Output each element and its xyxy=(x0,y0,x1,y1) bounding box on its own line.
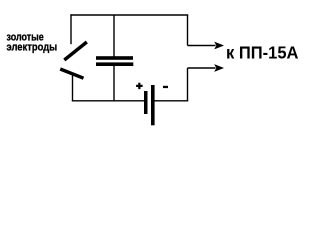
electrode upper (gold electrode, thick diagonal) xyxy=(64,42,87,60)
svg-text:электроды: электроды xyxy=(7,42,58,54)
wire bottom left horizontal xyxy=(72,100,145,102)
capacitor C bottom plate xyxy=(96,62,133,66)
capacitor C lead top xyxy=(113,15,115,57)
svg-text:к ПП-15А: к ПП-15А xyxy=(226,43,299,63)
wire top horizontal xyxy=(70,14,188,16)
arrow lower to PP-15A xyxy=(188,67,216,69)
wire left lower vertical xyxy=(72,75,74,101)
capacitor C lead bottom xyxy=(113,66,115,101)
battery minus sign xyxy=(163,86,168,88)
arrow upper to PP-15A xyxy=(188,45,216,47)
battery plus sign xyxy=(136,83,143,89)
wire right upper vertical xyxy=(187,15,189,46)
wire bottom right horizontal xyxy=(154,100,188,102)
label "золотые электроды" xyxy=(7,31,58,53)
battery left plate (short) xyxy=(144,91,148,114)
battery right plate (long) xyxy=(151,85,155,125)
electrode lower (gold electrode, thick diagonal) xyxy=(60,69,83,78)
capacitor C top plate xyxy=(96,56,133,60)
wire right lower vertical xyxy=(187,68,189,101)
wire left upper vertical xyxy=(70,14,72,44)
